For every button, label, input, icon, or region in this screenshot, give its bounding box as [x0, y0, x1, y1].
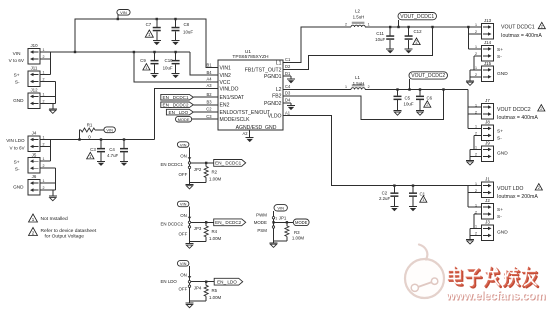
svg-text:J14: J14	[484, 40, 492, 45]
svg-text:1: 1	[475, 45, 477, 49]
connector J2 sense	[482, 204, 494, 220]
svg-text:2: 2	[475, 189, 477, 193]
svg-text:C1: C1	[420, 191, 426, 196]
svg-text:2: 2	[43, 143, 45, 147]
wire J13 to J14	[467, 27, 469, 49]
wire JP3 bottom	[190, 241, 207, 243]
ground JP4	[189, 301, 191, 303]
svg-text:2: 2	[475, 30, 477, 34]
net tag VIN (R1)	[104, 127, 116, 133]
net tag VOUT_DCDC1	[398, 13, 437, 20]
connector J4 VIN LDO	[28, 136, 40, 152]
ground C4	[120, 160, 128, 162]
svg-text:Not Installed: Not Installed	[41, 216, 68, 222]
svg-text:TPS65785XYZH: TPS65785XYZH	[232, 54, 269, 60]
wire JP2 to tag	[191, 162, 214, 164]
connector J12 GND	[28, 93, 40, 109]
note 2 output voltage	[29, 228, 38, 236]
svg-text:C1: C1	[285, 57, 291, 62]
ground JP2	[189, 182, 191, 184]
svg-text:EN2: EN2	[220, 103, 230, 109]
svg-text:J7: J7	[485, 98, 490, 103]
svg-text:ENLDO/TST_EN/OUT: ENLDO/TST_EN/OUT	[220, 110, 271, 116]
jumper JP2	[189, 147, 191, 182]
svg-text:1: 1	[475, 146, 477, 150]
ground C2	[390, 206, 398, 208]
ground C12	[405, 48, 413, 50]
connector J9 GND	[482, 146, 494, 162]
svg-text:S-: S-	[497, 54, 502, 60]
connector J8 sense	[482, 125, 494, 141]
svg-text:GND: GND	[497, 71, 508, 77]
svg-text:VINLDO: VINLDO	[220, 87, 239, 93]
net tag EN_DCDC1 at IC	[161, 94, 194, 100]
connector J5 sense	[28, 158, 40, 174]
svg-text:1: 1	[345, 85, 347, 89]
svg-text:1.00M: 1.00M	[209, 295, 222, 300]
svg-text:EN_ DCDC1: EN_ DCDC1	[163, 95, 189, 100]
svg-text:Ioutmax = 400mA: Ioutmax = 400mA	[501, 33, 542, 39]
capacitor C8 10uF	[175, 19, 177, 27]
wire JP3 to tag	[191, 221, 214, 223]
svg-text:JP4: JP4	[194, 286, 202, 291]
svg-text:C4: C4	[285, 84, 291, 89]
svg-text:S+: S+	[14, 73, 20, 78]
jumper JP3	[189, 207, 191, 242]
svg-text:2: 2	[540, 106, 542, 111]
inductor L2 1.5uH	[352, 22, 365, 24]
svg-text:EN_ DCDC2: EN_ DCDC2	[163, 103, 189, 108]
jumper JP1 mode select	[273, 211, 275, 241]
svg-text:1: 1	[275, 217, 277, 221]
svg-text:J10: J10	[30, 43, 38, 48]
net tag VIN (top)	[117, 10, 130, 16]
wire VINLDO to IC pin A3	[155, 89, 219, 140]
svg-text:2: 2	[43, 99, 45, 103]
wire LDO rail down to J1 J2	[467, 186, 469, 208]
capacitor C10 10uF	[175, 52, 177, 60]
svg-text:EN DCDC2: EN DCDC2	[161, 222, 184, 227]
svg-text:J9: J9	[485, 141, 490, 146]
svg-text:B1: B1	[206, 62, 212, 67]
svg-text:MODE: MODE	[178, 117, 190, 122]
capacitor C7 (not installed)	[156, 19, 158, 27]
connector J10 VIN	[28, 48, 40, 64]
svg-text:for Output Voltage: for Output Voltage	[45, 233, 85, 239]
op-amp U1 TPS65785XYZH body	[218, 60, 283, 130]
svg-text:JP1: JP1	[279, 216, 287, 221]
node junction top rail	[117, 18, 119, 20]
wire L2 pin of U1 to inductor L1	[283, 89, 351, 91]
svg-text:2: 2	[475, 210, 477, 214]
net tag EN_ DCDC2	[214, 219, 246, 226]
svg-text:A2: A2	[242, 131, 248, 136]
wire J5 to J6	[55, 168, 57, 190]
svg-text:J8: J8	[485, 120, 490, 125]
svg-text:C3: C3	[206, 114, 212, 119]
svg-text:R3: R3	[294, 230, 300, 235]
svg-text:MODE/SCLK: MODE/SCLK	[220, 117, 251, 123]
wire VLDO from U1 pin A1	[283, 116, 468, 186]
svg-text:JP2: JP2	[194, 167, 202, 172]
svg-text:1: 1	[43, 179, 45, 183]
svg-text:2: 2	[538, 185, 540, 190]
svg-text:1: 1	[43, 71, 45, 75]
net tag VIN (JP1)	[274, 205, 287, 211]
svg-text:2: 2	[475, 132, 477, 136]
svg-text:V to 6V: V to 6V	[10, 146, 26, 151]
svg-text:2: 2	[426, 102, 428, 107]
svg-text:D3: D3	[285, 90, 291, 95]
ground C8	[172, 40, 180, 42]
svg-text:D1: D1	[285, 71, 291, 76]
svg-text:PWM: PWM	[256, 212, 267, 217]
svg-text:GND: GND	[13, 185, 24, 190]
svg-text:Refer to device datasheet: Refer to device datasheet	[41, 228, 97, 234]
wire J6 pin stubs	[40, 182, 56, 184]
resistor R1 0 ohm	[80, 130, 82, 140]
svg-text:S+: S+	[497, 128, 503, 134]
net tag EN_DCDC2 at IC	[161, 102, 194, 108]
svg-text:2.2uF: 2.2uF	[379, 196, 391, 201]
svg-text:S+: S+	[14, 159, 20, 164]
svg-text:C11: C11	[376, 31, 384, 36]
svg-text:R4: R4	[212, 229, 218, 234]
svg-text:4.7uF: 4.7uF	[107, 153, 119, 158]
connector J7 VOUT DCDC2	[482, 104, 494, 120]
svg-text:2: 2	[475, 52, 477, 56]
svg-text:PGND2: PGND2	[264, 101, 282, 107]
svg-text:2: 2	[475, 153, 477, 157]
resistor R5 1.00M	[205, 282, 207, 286]
connector J11 sense	[28, 71, 40, 87]
connector J15 GND	[482, 66, 494, 82]
svg-text:VIN1: VIN1	[220, 66, 231, 72]
svg-text:J4: J4	[32, 131, 37, 136]
ground J12	[52, 103, 54, 108]
wire J10 to J11	[50, 52, 52, 75]
svg-text:10uF: 10uF	[163, 65, 173, 70]
svg-text:R1: R1	[87, 122, 93, 127]
svg-text:GND: GND	[13, 98, 24, 103]
svg-text:10uF: 10uF	[375, 37, 385, 42]
capacitor C9 (not installed)	[154, 52, 156, 60]
wire J8 to J9	[473, 135, 475, 149]
svg-text:VOUT LDO: VOUT LDO	[497, 186, 523, 192]
wire VCC to IC	[134, 52, 218, 82]
svg-text:www.elecfans.com: www.elecfans.com	[445, 289, 546, 303]
ground JP1	[273, 241, 275, 243]
wire VIN LDO rail from J4	[40, 139, 155, 141]
ground C3	[97, 160, 105, 162]
svg-text:J1: J1	[485, 177, 490, 182]
ground JP3	[189, 242, 191, 244]
svg-text:1: 1	[475, 182, 477, 186]
svg-text:A1: A1	[285, 110, 291, 115]
wire J12 pin stubs	[40, 95, 56, 97]
wire VIN tag to top rail	[117, 15, 119, 19]
inductor L1 1.5uH	[352, 84, 365, 86]
net tag VIN (JP3)	[177, 201, 189, 207]
svg-text:D2: D2	[285, 64, 291, 69]
svg-text:B4: B4	[206, 70, 212, 75]
svg-text:D4: D4	[285, 98, 291, 103]
svg-text:2: 2	[475, 73, 477, 77]
svg-text:VIN: VIN	[13, 51, 21, 56]
wire tag drop VOUT_DCDC2	[409, 79, 411, 89]
wire top VIN rail	[75, 19, 218, 68]
ground C7	[153, 40, 161, 42]
svg-text:S-: S-	[15, 80, 20, 85]
svg-text:R5: R5	[212, 288, 218, 293]
svg-text:1: 1	[475, 225, 477, 229]
svg-text:C5: C5	[405, 96, 411, 101]
svg-text:10uF: 10uF	[404, 102, 414, 107]
wire JP4 to tag	[191, 281, 215, 283]
svg-text:C9: C9	[140, 58, 146, 63]
svg-text:S-: S-	[15, 166, 20, 171]
capacitor C4 4.7uF	[123, 140, 125, 148]
svg-text:2: 2	[541, 24, 543, 29]
svg-text:1: 1	[32, 217, 35, 223]
svg-text:OFF: OFF	[179, 287, 188, 292]
connector J13 VOUT DCDC1	[482, 23, 494, 39]
svg-text:VIN: VIN	[120, 10, 127, 15]
svg-text:VIN: VIN	[277, 206, 284, 211]
net tag VIN (JP4)	[177, 261, 189, 267]
svg-text:C4: C4	[109, 147, 115, 152]
svg-text:1.00M: 1.00M	[292, 236, 305, 241]
svg-text:R2: R2	[212, 169, 218, 174]
svg-text:S-: S-	[497, 214, 502, 220]
svg-text:2: 2	[345, 22, 347, 26]
svg-text:VIN: VIN	[180, 202, 187, 207]
svg-text:1: 1	[43, 48, 45, 52]
svg-text:VIN: VIN	[106, 128, 113, 133]
svg-text:1: 1	[43, 157, 45, 161]
ground PGND1	[283, 75, 291, 77]
svg-text:J11: J11	[31, 66, 38, 71]
svg-text:2: 2	[475, 110, 477, 114]
svg-text:VIN: VIN	[180, 142, 187, 147]
svg-text:FB2: FB2	[272, 94, 282, 100]
svg-text:2: 2	[43, 186, 45, 190]
svg-text:C2: C2	[206, 107, 212, 112]
svg-text:L1: L1	[355, 75, 360, 80]
svg-text:C8: C8	[184, 22, 190, 27]
svg-text:VIN LDO: VIN LDO	[6, 138, 25, 143]
svg-text:EN_ DCDC2: EN_ DCDC2	[215, 220, 241, 225]
svg-text:S-: S-	[497, 135, 502, 141]
svg-text:J3: J3	[485, 220, 490, 225]
wire VOUT_DCDC2 rail	[365, 89, 468, 91]
svg-text:1: 1	[43, 92, 45, 96]
svg-text:VLDO: VLDO	[268, 114, 282, 120]
wire J4 to J5	[50, 140, 52, 162]
svg-text:FB1/TST_OUT2: FB1/TST_OUT2	[245, 67, 282, 73]
capacitor C1 (not installed)	[412, 186, 414, 193]
wire J14 to J15	[473, 56, 475, 70]
svg-text:J15: J15	[484, 61, 492, 66]
svg-text:GND: GND	[497, 151, 508, 157]
ground C1	[409, 206, 417, 208]
wire FB1 feedback	[283, 27, 433, 70]
svg-text:VIN2: VIN2	[220, 73, 231, 79]
svg-text:1.5uH: 1.5uH	[353, 81, 365, 86]
wire J11 to J12	[55, 82, 57, 104]
net tag EN_ DCDC1	[214, 160, 246, 167]
svg-text:1: 1	[475, 203, 477, 207]
ground A2	[246, 137, 254, 139]
svg-text:S+: S+	[497, 47, 503, 53]
svg-text:EN LDO: EN LDO	[161, 279, 178, 284]
svg-text:1.5uH: 1.5uH	[353, 15, 365, 20]
ground J6	[52, 190, 54, 196]
capacitor C12 (see note 2)	[408, 27, 410, 35]
svg-text:VOUT DCDC2: VOUT DCDC2	[497, 107, 531, 113]
connector J3 GND	[482, 225, 494, 241]
svg-text:C2: C2	[382, 191, 388, 196]
svg-text:JP3: JP3	[194, 226, 202, 231]
wire J2 to J3	[473, 214, 475, 228]
svg-text:1: 1	[422, 197, 424, 202]
svg-text:1.00M: 1.00M	[209, 236, 222, 241]
svg-text:2: 2	[43, 164, 45, 168]
capacitor C6 (see note 2)	[419, 90, 421, 96]
ground C9	[151, 73, 159, 75]
svg-text:EN DCDC1: EN DCDC1	[161, 162, 184, 167]
wire VIN2 to IC	[190, 52, 218, 75]
svg-text:U1: U1	[245, 49, 251, 55]
ground C10	[172, 73, 180, 75]
wire JP4 bottom	[190, 300, 207, 302]
svg-text:B2: B2	[206, 92, 212, 97]
wire J10 pin stubs	[40, 51, 51, 53]
wire J5 pin stubs	[40, 160, 51, 162]
wire DCDC2 rail down to J7 J8	[467, 90, 469, 129]
svg-text:VIN: VIN	[180, 261, 187, 266]
svg-text:ON: ON	[180, 213, 187, 218]
svg-text:J13: J13	[484, 18, 492, 23]
wire VOUT_DCDC1 rail	[365, 26, 481, 28]
svg-text:C10: C10	[165, 58, 174, 63]
svg-text:PGND1: PGND1	[264, 74, 282, 80]
svg-text:10uF: 10uF	[183, 29, 193, 34]
svg-text:C7: C7	[146, 22, 152, 27]
svg-text:B3: B3	[206, 99, 212, 104]
wire J4 pin stubs	[40, 139, 51, 141]
svg-text:EN_ LDO: EN_ LDO	[217, 279, 237, 284]
resistor R4 1.00M	[205, 222, 207, 226]
ground PGND2	[283, 102, 291, 104]
capacitor C3 (not installed)	[100, 140, 102, 148]
connector J1 VOUT LDO	[482, 182, 494, 198]
note 1 not installed	[29, 214, 38, 222]
net tag EN_ LDO	[214, 278, 243, 285]
net tag MODE at IC	[176, 116, 192, 122]
svg-text:L2: L2	[355, 9, 360, 14]
net tag VOUT_DCDC2	[409, 72, 448, 79]
svg-text:V to 6V: V to 6V	[9, 58, 25, 63]
svg-text:MODE: MODE	[295, 220, 308, 225]
ground J9	[469, 149, 471, 160]
resistor R3 1.00M	[286, 222, 288, 226]
svg-text:J12: J12	[30, 88, 38, 93]
svg-text:A3: A3	[206, 83, 212, 88]
svg-text:EN1/SDAT: EN1/SDAT	[220, 95, 245, 101]
svg-text:1: 1	[475, 125, 477, 129]
svg-text:OFF: OFF	[179, 172, 188, 177]
svg-text:C3: C3	[90, 147, 96, 152]
svg-text:VOUT DCDC1: VOUT DCDC1	[501, 25, 535, 31]
wire JP1 bottom	[274, 240, 287, 242]
U1 pin A2 AGND	[249, 130, 251, 137]
svg-text:GND: GND	[497, 230, 508, 236]
wire JP2 bottom	[190, 181, 207, 183]
svg-text:ON: ON	[180, 154, 187, 159]
connector J14 sense	[482, 45, 494, 61]
svg-text:1: 1	[145, 65, 147, 70]
resistor R2 1.00M	[205, 163, 207, 167]
svg-text:1: 1	[475, 103, 477, 107]
ground J3	[469, 228, 471, 239]
svg-text:A4: A4	[206, 77, 212, 82]
jumper JP4	[189, 266, 191, 301]
ground J15	[469, 70, 471, 81]
connector J6 GND	[28, 180, 40, 196]
svg-text:2: 2	[43, 55, 45, 59]
ground C6	[416, 110, 424, 112]
net tag EN_LDO at IC	[166, 109, 193, 115]
svg-text:VOUT_DCDC1: VOUT_DCDC1	[400, 14, 434, 20]
svg-text:J2: J2	[485, 198, 490, 203]
svg-text:ON: ON	[180, 272, 187, 277]
watermark text dianzifashaoyou	[450, 269, 538, 287]
svg-text:J6: J6	[32, 174, 37, 179]
svg-text:1: 1	[43, 136, 45, 140]
svg-text:1.00M: 1.00M	[209, 176, 222, 181]
wire L1 pin of U1 to inductor L2	[283, 27, 351, 63]
svg-text:C6: C6	[427, 96, 433, 101]
svg-text:MODE: MODE	[254, 220, 267, 225]
svg-text:PSM: PSM	[257, 228, 267, 233]
svg-text:Ioutmax = 400mA: Ioutmax = 400mA	[497, 115, 538, 121]
net tag VIN (JP2)	[177, 142, 189, 148]
ground C5	[394, 110, 402, 112]
wire VIN rail from J10	[40, 51, 190, 53]
ground C11	[386, 48, 394, 50]
svg-text:L2: L2	[276, 87, 282, 93]
wire tag drop VOUT_DCDC1	[398, 20, 400, 27]
capacitor C5 10uF	[397, 90, 399, 96]
svg-text:VOUT_DCDC2: VOUT_DCDC2	[411, 73, 445, 79]
svg-text:EN_ LDO: EN_ LDO	[169, 110, 189, 115]
svg-text:OFF: OFF	[179, 232, 188, 237]
capacitor C2 2.2uF	[393, 186, 395, 193]
wire FB2 feedback	[283, 90, 444, 120]
svg-text:2: 2	[32, 231, 35, 237]
svg-text:J5: J5	[32, 152, 37, 157]
wire JP1 to MODE tag	[274, 221, 294, 223]
net tag MODE (JP1)	[293, 219, 309, 226]
svg-text:S+: S+	[497, 207, 503, 213]
svg-text:1: 1	[475, 23, 477, 27]
svg-text:VCC: VCC	[220, 80, 231, 86]
wire J11 pin stubs	[40, 74, 51, 76]
capacitor C11 10uF	[389, 27, 391, 35]
svg-text:1: 1	[368, 22, 370, 26]
svg-text:2: 2	[475, 232, 477, 236]
